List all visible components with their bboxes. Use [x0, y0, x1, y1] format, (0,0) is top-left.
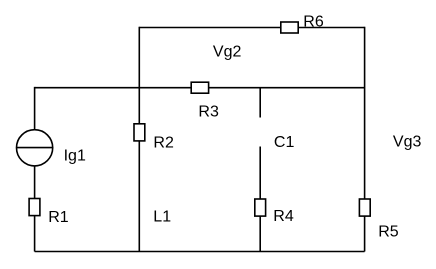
svg-text:R2: R2: [153, 135, 174, 152]
svg-text:Vg2: Vg2: [213, 44, 242, 61]
svg-text:L1: L1: [153, 209, 171, 226]
svg-text:C1: C1: [274, 134, 295, 151]
svg-text:R5: R5: [378, 224, 399, 241]
svg-text:R4: R4: [273, 208, 294, 225]
svg-text:Vg3: Vg3: [393, 134, 422, 151]
svg-text:Ig1: Ig1: [64, 148, 86, 165]
svg-text:R6: R6: [303, 14, 324, 31]
svg-text:R3: R3: [198, 104, 219, 121]
svg-text:R1: R1: [48, 209, 69, 226]
